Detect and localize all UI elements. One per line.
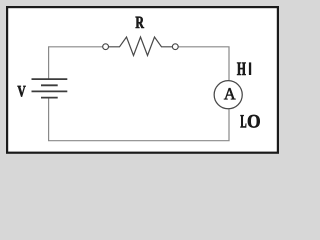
label V — [18, 86, 26, 97]
panel frame — [7, 7, 278, 153]
ammeter A circle — [214, 81, 242, 109]
label R — [136, 17, 144, 28]
ammeter label A — [224, 88, 236, 99]
label LO — [241, 115, 247, 127]
wire top-left to resistor left terminal — [49, 47, 103, 79]
resistor R terminal circle right — [172, 44, 178, 50]
resistor R body zigzag — [109, 37, 172, 56]
battery V — [32, 79, 68, 98]
resistor R terminal circle left — [103, 44, 109, 50]
wire ammeter bottom to battery bottom — [49, 98, 229, 141]
wire resistor right terminal to ammeter top — [178, 47, 229, 81]
label HI — [237, 63, 246, 76]
